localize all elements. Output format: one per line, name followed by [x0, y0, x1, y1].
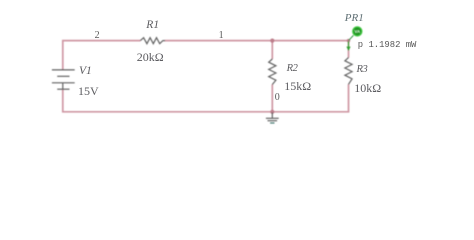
- svg-text:VA: VA: [354, 29, 361, 34]
- ground symbol: [266, 113, 279, 121]
- label: R1 refdes: [146, 19, 159, 31]
- label: R2 refdes: [287, 63, 298, 74]
- probe PR1 head (green circle with VA): [352, 26, 363, 37]
- resistor R3 zigzag: [345, 58, 352, 85]
- probe PR1 arrow on wire: [348, 41, 350, 47]
- label: node 0: [275, 92, 280, 103]
- wire: R2 top lead: [271, 41, 273, 59]
- label: R1 value 20k ohm: [137, 50, 164, 65]
- label: V1 value 15V: [78, 84, 99, 99]
- resistor R1 zigzag: [140, 38, 165, 44]
- resistor R2 zigzag: [269, 59, 276, 85]
- label: R2 value 15k ohm: [284, 79, 311, 94]
- node junction dot at top-right corner (probe attach): [347, 39, 350, 42]
- wire: R2 bottom lead: [271, 85, 273, 112]
- label: node 1: [219, 30, 224, 41]
- wire: top rail right of R1 to top-right corner and down to R3: [165, 41, 349, 58]
- node junction dot at node 1 / R2 top: [270, 39, 274, 43]
- label: node 2: [95, 30, 100, 41]
- wire: top net from V1 plus terminal to node 1 / top rail: [63, 41, 141, 70]
- wire: bottom rail from battery minus to R3 bottom: [63, 84, 349, 112]
- label: PR1 probe refdes: [345, 12, 364, 24]
- battery V1 body: plates: [52, 70, 75, 89]
- label: V1 refdes: [79, 65, 92, 77]
- label: R3 refdes: [357, 64, 368, 75]
- node junction dot at ground net / R2 bottom: [270, 110, 274, 114]
- probe PR1 stem: [349, 35, 354, 40]
- label: R3 value 10k ohm: [354, 81, 381, 96]
- label: probe reading p 1.1982 mW: [358, 40, 417, 50]
